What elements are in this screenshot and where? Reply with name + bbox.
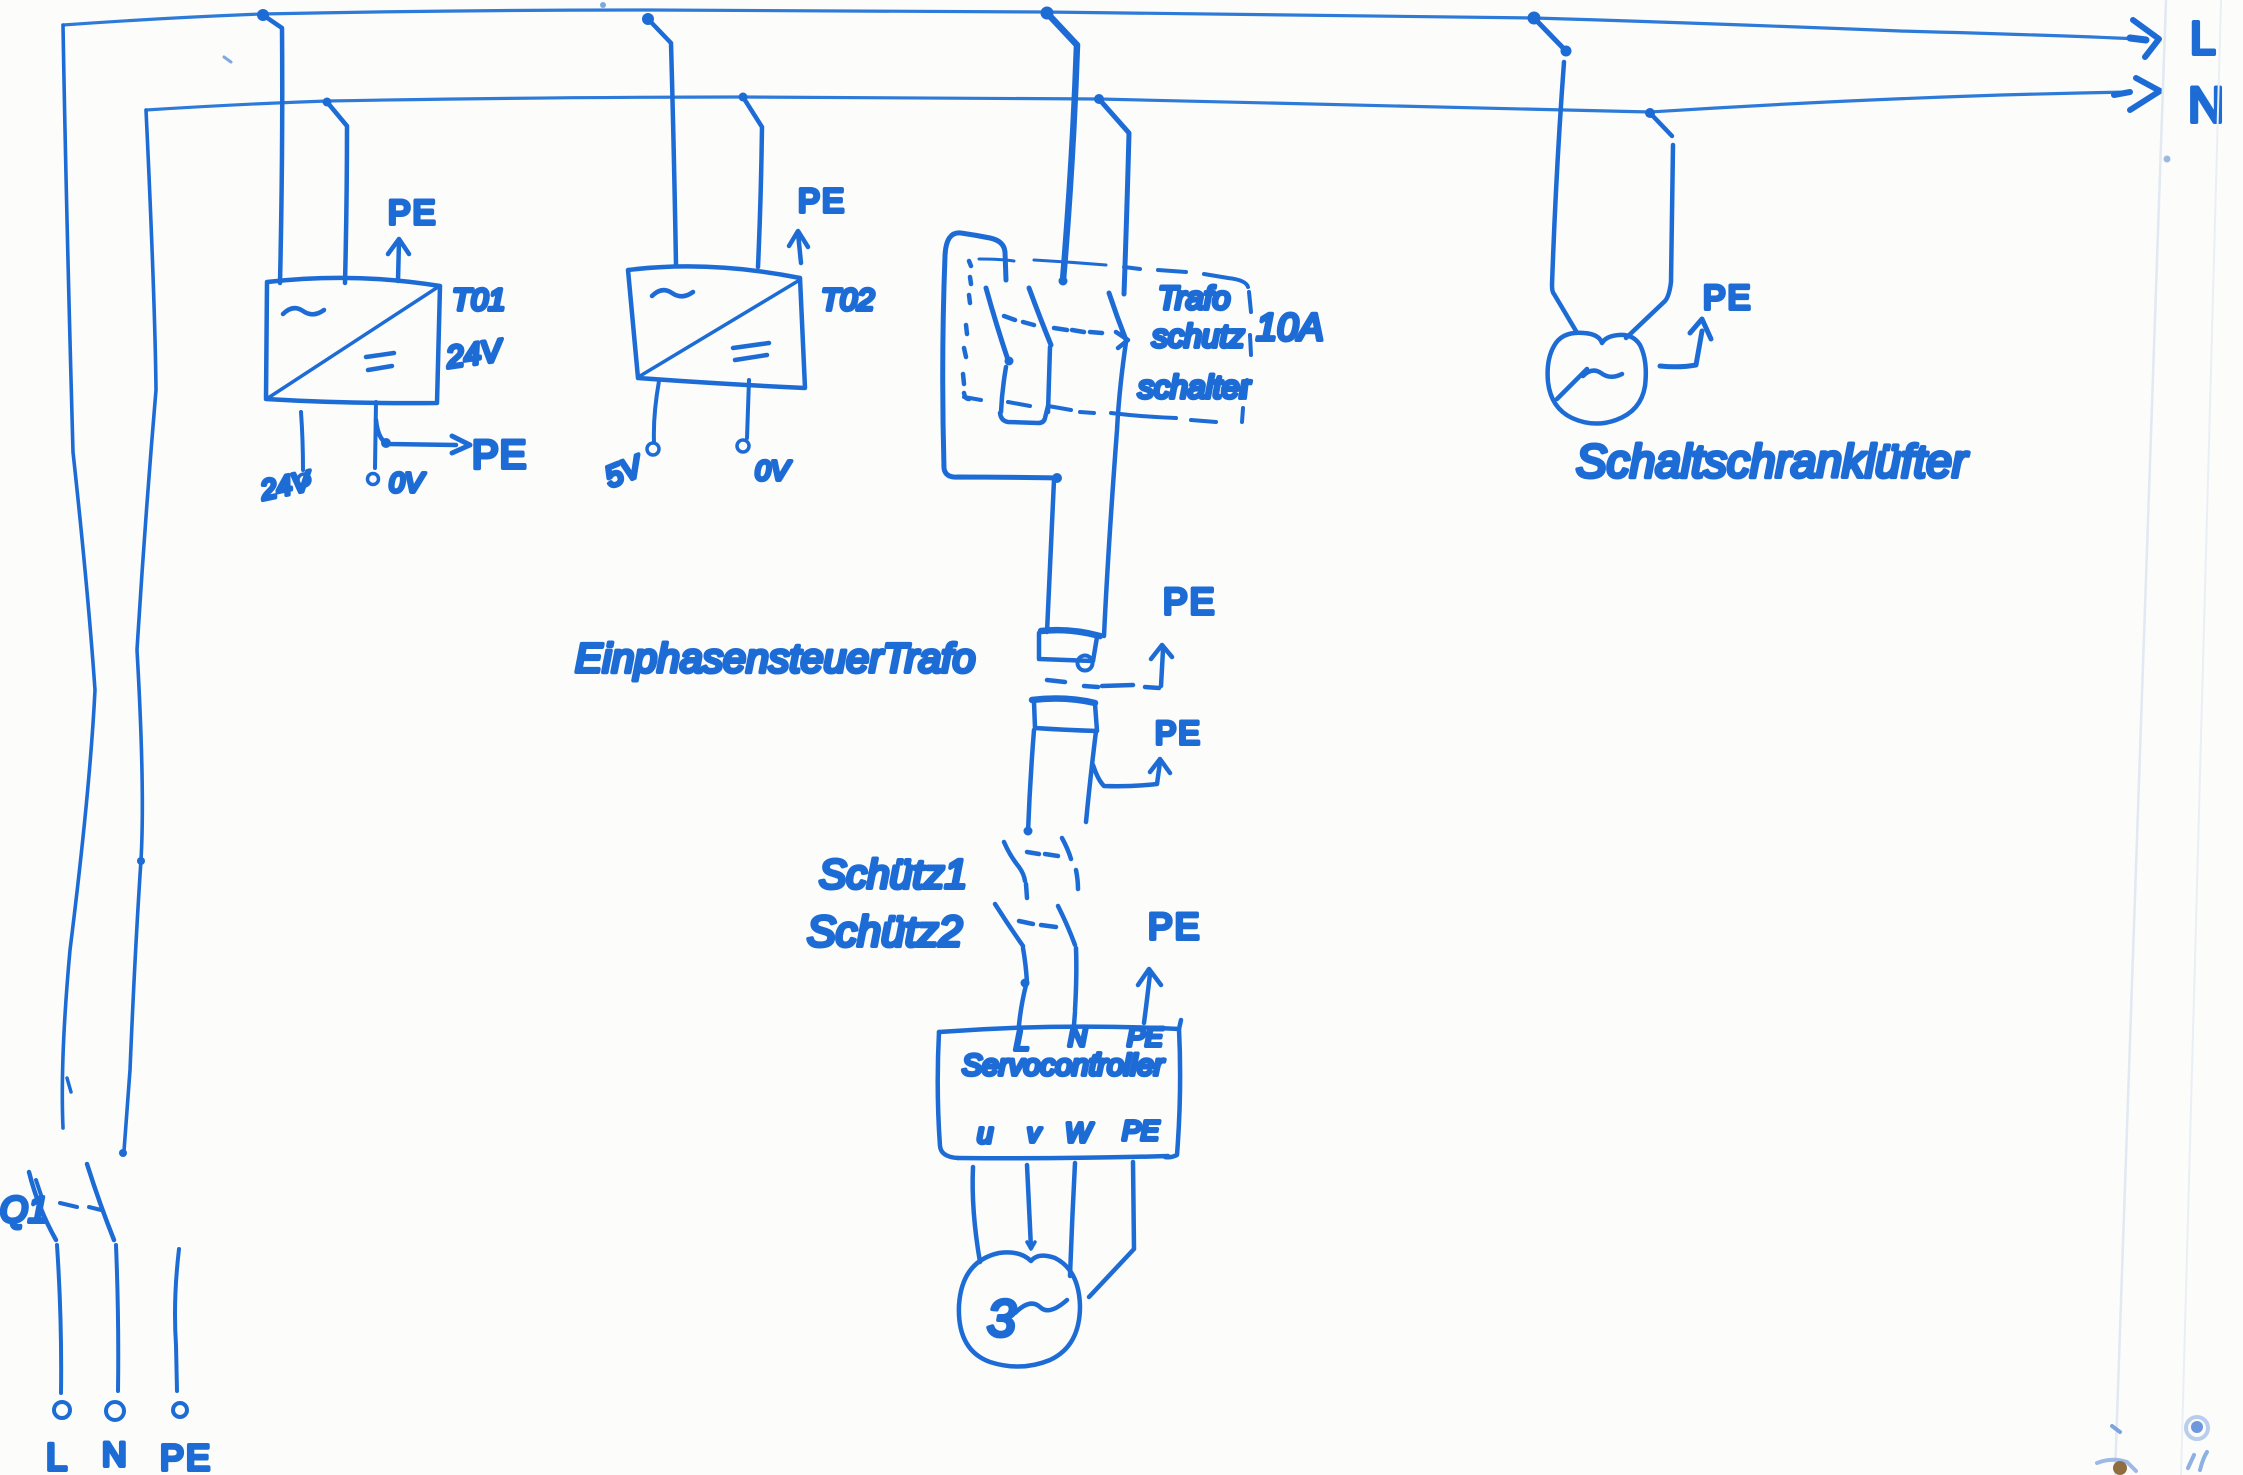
faint scribble bottom right 2 [2188, 1452, 2207, 1470]
dashed coupler Q1 [60, 1203, 101, 1210]
wire T01 input L [263, 15, 282, 283]
contactor Schuetz2 right tail [1075, 948, 1076, 1010]
contactor Schuetz1 left blade [1004, 842, 1025, 881]
svg-text:T01: T01 [452, 282, 505, 317]
svg-text:Trafo: Trafo [1158, 280, 1230, 316]
arrowhead L bus [2133, 20, 2159, 57]
svg-text:schalter: schalter [1138, 369, 1251, 405]
symbol DC equals T02 [733, 343, 769, 360]
faint speck top [600, 2, 606, 8]
dashed enclosure top edge thin solid part [979, 259, 1106, 265]
terminal circle L [54, 1402, 70, 1418]
svg-text:Servocontroller: Servocontroller [962, 1049, 1165, 1082]
node dot C-loop end [1052, 473, 1062, 483]
wire left vertical from L bus down to Q1 [62, 25, 95, 1128]
contactor Schuetz1 right blade [1062, 838, 1071, 859]
wire T01 out 24V [301, 412, 303, 470]
node dot fan L bend [1561, 46, 1572, 57]
terminal circle 5V [647, 443, 659, 455]
junction dot fan N tap [1645, 108, 1655, 118]
svg-text:0V: 0V [389, 467, 426, 498]
junction dot PE branch [381, 438, 391, 448]
svg-text:Schütz2: Schütz2 [807, 908, 962, 956]
wire PE elbow fan [1660, 331, 1702, 367]
svg-text:PE: PE [160, 1437, 212, 1475]
wire fan L down [1552, 62, 1576, 331]
switch Q1 pole1 blade [29, 1172, 56, 1240]
arrow PE above T01 [388, 239, 409, 281]
wire breaker pole1 lower [1001, 367, 1006, 412]
faint scribble bottom edge 1 [2097, 1460, 2136, 1471]
svg-text:W: W [1065, 1117, 1094, 1148]
junction dot T02 L tap [642, 13, 654, 25]
wire secondary right down [1086, 731, 1096, 822]
faint scanner line 1 [2115, 0, 2166, 1475]
svg-text:3: 3 [987, 1290, 1016, 1348]
wire fan N down [1626, 145, 1673, 338]
arrow PE core [1151, 645, 1172, 686]
ink halo bottom right [2186, 1417, 2208, 1439]
tilde in motor [1015, 1300, 1067, 1313]
svg-text:EinphasensteuerTrafo: EinphasensteuerTrafo [575, 635, 975, 681]
power supply T01 diagonal [268, 287, 438, 398]
svg-text:PE: PE [388, 194, 437, 232]
svg-text:24V: 24V [257, 465, 315, 506]
wire Schuetz2 left to servo L [1019, 985, 1026, 1025]
terminal circle 0V T02 [737, 440, 749, 452]
wire N bus horizontal [146, 92, 2128, 112]
wire PE tap from secondary right [1093, 762, 1160, 786]
wire breaker pole3 down to trafo [1104, 342, 1126, 636]
symbol 1 phase stroke in fan [1557, 369, 1587, 399]
servo controller box top [939, 1027, 1179, 1032]
servo controller box bottom [958, 1156, 1168, 1158]
fan motor circle [1548, 333, 1646, 424]
faint mark near bottom center-right [2112, 1426, 2120, 1432]
arrowhead N bus [2130, 78, 2160, 110]
power supply T02 box [628, 266, 805, 388]
dashed enclosure left edge [963, 261, 971, 399]
wire left vertical from N bus down to Q1 [124, 110, 156, 1151]
contactor Schuetz2 right blade [1058, 906, 1075, 945]
trafo primary circle terminal [1078, 656, 1093, 671]
svg-text:PE: PE [1148, 906, 1201, 947]
brown blot bottom edge [2113, 1461, 2127, 1475]
arrowhead actuator link [1116, 332, 1128, 348]
wire T02 input L [648, 19, 676, 265]
wire T01 out 0V [375, 402, 376, 468]
dashed enclosure top edge right dashes [1124, 267, 1248, 287]
svg-text:Schaltschranklüfter: Schaltschranklüfter [1576, 435, 1969, 487]
arrow PE servo input [1138, 969, 1161, 1023]
terminal circle 24V [298, 474, 310, 486]
svg-text:0V: 0V [755, 455, 792, 486]
wire breaker input N [1099, 99, 1129, 294]
symbol AC tilde T02 [652, 290, 693, 296]
dashed link Schuetz1 [1027, 852, 1058, 856]
dashed enclosure right edge [1242, 292, 1251, 422]
motor M circle [959, 1252, 1080, 1366]
svg-text:PE: PE [1122, 1115, 1160, 1146]
wire fan N diagonal [1650, 113, 1672, 136]
svg-text:schutz: schutz [1152, 318, 1244, 354]
trafo secondary winding box [1034, 702, 1097, 731]
power supply T02 diagonal [640, 281, 798, 376]
svg-text:T02: T02 [821, 282, 874, 317]
wire fan L diagonal [1534, 18, 1566, 51]
servo controller box right [1165, 1020, 1181, 1157]
arrow PE above T02 [789, 231, 808, 263]
arrow tip v wire [1027, 1242, 1035, 1249]
contactor Schuetz2 left blade [995, 904, 1023, 946]
junction dot on N drop [137, 857, 145, 865]
wire L bus top horizontal [63, 10, 2140, 39]
switch Q1 pole2 blade [87, 1164, 114, 1240]
switch blade breaker pole2 [1029, 288, 1051, 345]
switch Q1 pole1 blade double stroke [36, 1180, 42, 1198]
wire PE branch from 0V [376, 420, 456, 445]
faint tick below L bus [224, 57, 231, 62]
svg-text:5V: 5V [600, 449, 649, 494]
arrowhead PE tap [1150, 759, 1170, 773]
junction dot breaker N tap [1094, 94, 1104, 104]
svg-text:Schütz1: Schütz1 [819, 851, 967, 897]
wire secondary left down [1028, 730, 1034, 832]
dashed actuator link breaker [1004, 316, 1102, 333]
junction blob breaker L tap [1041, 7, 1054, 20]
wire T02 input N [743, 97, 762, 267]
symbol DC equals T01 [366, 353, 394, 370]
svg-text:PE: PE [798, 182, 846, 219]
node end dot breaker L [1059, 277, 1068, 286]
solid squiggle on bottom edge [1111, 413, 1176, 418]
switch blade breaker pole1 [986, 288, 1008, 360]
svg-text:PE: PE [1163, 581, 1216, 622]
trafo primary top bar [1041, 630, 1100, 636]
wire servo w to motor [1070, 1163, 1075, 1276]
wire C-loop down to trafo primary [1047, 480, 1054, 632]
tilde in fan [1583, 371, 1622, 377]
servo controller box left [938, 1032, 958, 1158]
terminal circle N [106, 1402, 124, 1420]
wire breaker pole2 lower [1048, 347, 1050, 412]
ink blot bottom right [2191, 1421, 2203, 1433]
svg-text:24V: 24V [443, 332, 507, 375]
junction dot T01 N tap [323, 98, 332, 107]
trafo core dashed line [1047, 680, 1159, 688]
wire breaker U-link pole1 to pole2 [1000, 406, 1048, 423]
node N arrow tip dot [2114, 92, 2130, 95]
node dot blade1 end [1005, 357, 1014, 366]
junction dot fan L tap [1528, 12, 1541, 25]
wire Q1 pole1 lower [57, 1245, 61, 1393]
svg-text:L: L [46, 1437, 67, 1475]
svg-text:N: N [1068, 1022, 1087, 1052]
wire tick near bottom of L drop [67, 1078, 71, 1092]
contactor Schuetz1 left tail [1026, 884, 1027, 898]
wire breaker input L (thick) [1047, 13, 1077, 280]
faint scanner line 2 [2181, 0, 2221, 1475]
junction dot T02 N tap [739, 93, 748, 102]
wire servo PE to motor case [1089, 1162, 1134, 1297]
wire Schuetz2 right to servo N [1074, 1012, 1075, 1025]
wire T02 out 0V [747, 380, 749, 438]
wire C-loop from breaker pole1 around left down to trafo [943, 233, 1057, 478]
svg-text:N: N [102, 1436, 127, 1474]
power supply T01 box [266, 278, 440, 403]
svg-text:L: L [2190, 12, 2216, 64]
terminal circle PE [173, 1403, 187, 1417]
faint dot near scan line [2164, 156, 2171, 163]
wire PE drop [175, 1249, 179, 1391]
trafo primary winding box [1039, 633, 1097, 661]
switch blade breaker pole3 [1109, 293, 1126, 340]
dashed enclosure bottom edge [964, 397, 1216, 422]
svg-text:u: u [977, 1118, 993, 1150]
svg-text:PE: PE [1127, 1022, 1164, 1052]
arrowhead PE fan [1690, 319, 1711, 339]
wire servo v to motor [1027, 1165, 1031, 1248]
terminal circle 0V T01 [368, 474, 379, 485]
node dot Schuetz2 left [1021, 979, 1030, 988]
wire Q1 pole2 lower [116, 1245, 118, 1391]
svg-text:PE: PE [1703, 279, 1752, 317]
wire servo u to motor [973, 1167, 980, 1262]
junction dot T01 L tap [257, 9, 269, 21]
trafo secondary top bar [1032, 699, 1095, 703]
svg-text:PE: PE [1155, 715, 1202, 751]
contactor Schuetz2 left tail [1023, 948, 1027, 983]
wire T02 out 5V [654, 381, 659, 442]
dashed link Schuetz2 [1019, 921, 1056, 927]
contactor Schuetz1 right tail [1076, 870, 1078, 889]
symbol AC tilde T01 [283, 308, 324, 314]
svg-text:10A: 10A [1256, 307, 1324, 349]
node L arrow tip dot [2130, 38, 2146, 40]
svg-text:v: v [1027, 1118, 1042, 1148]
node dot secondary left [1024, 827, 1033, 836]
svg-text:PE: PE [472, 433, 527, 477]
junction dot end of N drop [119, 1149, 127, 1157]
arrowhead PE branch [452, 436, 470, 453]
wire T01 input N [327, 102, 347, 283]
